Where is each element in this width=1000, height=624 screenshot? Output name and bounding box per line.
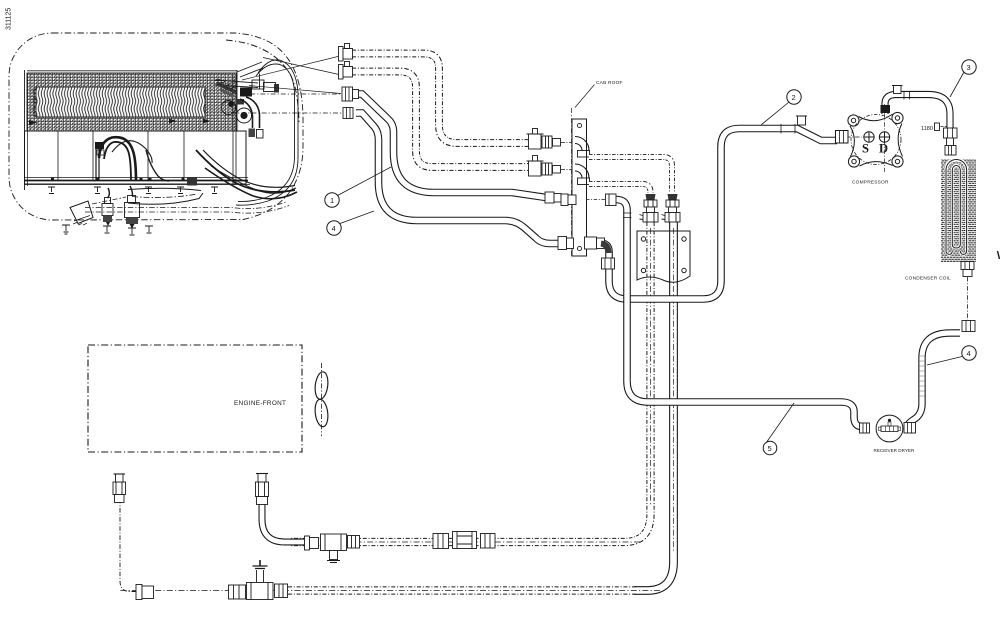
evaporator band top border xyxy=(27,70,237,72)
condenser inlet nuts xyxy=(944,128,958,138)
charge chain A fittings xyxy=(256,474,496,563)
heater hose arch in blower compartment xyxy=(99,137,136,181)
evaporator right end plate xyxy=(233,75,236,184)
funnel leader xyxy=(92,197,126,204)
heater pipes vertical xyxy=(96,144,99,181)
top bracket xyxy=(237,62,263,89)
pair B horizontal dash-dot run xyxy=(288,586,636,594)
fitting nut T1 xyxy=(342,87,353,101)
plate bolts xyxy=(48,187,218,194)
pipe unions hatched xyxy=(217,83,236,93)
row 4 elbow fitting dark xyxy=(601,244,609,254)
expansion valve black body xyxy=(240,88,252,97)
row 3 exit dash-dot xyxy=(586,199,610,201)
cabinet dividers xyxy=(58,131,184,181)
svg-text:RECEIVER DRYER: RECEIVER DRYER xyxy=(874,448,915,453)
svg-text:4: 4 xyxy=(967,349,971,358)
svg-text:D: D xyxy=(879,142,888,156)
valve fitting on hose D1 xyxy=(527,129,573,150)
callout circle 1 xyxy=(325,193,339,207)
flange fitting xyxy=(305,536,310,550)
tee B with valve stem xyxy=(247,583,274,600)
hose 4 crimp ticks xyxy=(919,356,925,396)
engine fan xyxy=(314,371,330,400)
fitting nut T2 xyxy=(343,108,353,119)
cab roof outline (dash-dot rounded rectangle) xyxy=(9,33,303,220)
expansion valve cluster xyxy=(215,62,279,138)
centerline dash-dot of tube fittings xyxy=(240,93,342,95)
union nut on hose 2 vertical xyxy=(602,258,615,269)
receiver dryer xyxy=(876,415,903,442)
svg-text:S: S xyxy=(862,142,869,156)
svg-text:5: 5 xyxy=(768,444,772,453)
svg-text:ENGINE-FRONT: ENGINE-FRONT xyxy=(234,400,286,407)
plate mounting dots xyxy=(51,178,54,181)
hose 2 (evaporator to compressor suction) xyxy=(600,129,837,300)
heater pipes to right xyxy=(215,80,258,88)
fitting left of tee B xyxy=(229,585,246,599)
lower dash-dot run inside cab xyxy=(85,202,287,209)
evaporator coil end loops xyxy=(33,89,36,116)
capillary tubes down xyxy=(246,97,260,128)
nut right of tee B xyxy=(275,584,288,598)
drain hose right xyxy=(146,150,169,181)
leader X lines to fittings xyxy=(242,55,344,80)
callout circle 5 xyxy=(763,441,777,455)
port stack 1 (on pair A) xyxy=(640,194,659,222)
callout circle 2 xyxy=(787,90,801,104)
tube T2 (solid tube to cab roof fourth port) xyxy=(356,113,560,244)
thermostat rings xyxy=(222,101,236,115)
dash-dot link to hose 4 xyxy=(967,277,969,320)
tube T1 (solid tube to cab roof third port) xyxy=(357,94,560,198)
evaporator lower cabinet xyxy=(25,131,247,184)
compressor centerline xyxy=(884,104,886,172)
drain funnel xyxy=(70,201,93,224)
plate elbow R2 xyxy=(575,164,589,179)
cabinet bottom plate xyxy=(24,177,248,179)
vacuum canister 1 xyxy=(102,198,113,227)
cab roof plate centerline xyxy=(571,108,573,258)
suction nut xyxy=(836,131,849,144)
discharge port block xyxy=(881,105,891,113)
charge chain B fittings xyxy=(113,474,288,600)
suction/discharge ports xyxy=(864,132,874,142)
discharge line pair B vertical (solid tube) xyxy=(634,222,674,591)
cab roof inner dome curve xyxy=(226,40,299,122)
svg-text:1180: 1180 xyxy=(921,126,933,132)
svg-text:COMPRESSOR: COMPRESSOR xyxy=(852,180,889,186)
right fitting xyxy=(481,534,496,549)
port stack 2 (on pair B) xyxy=(662,194,681,222)
canister feed hoses xyxy=(108,188,110,198)
nut right of tee xyxy=(348,536,360,549)
callout circle 4 right xyxy=(962,346,976,360)
bulkhead manifold plate xyxy=(637,231,690,282)
hose 2 crimp and service fitting xyxy=(781,124,795,134)
pair A center line xyxy=(280,228,651,542)
blower motor block xyxy=(95,142,104,149)
nut T2 into plate row 4 xyxy=(558,237,567,250)
solid tube from tee to charge valve xyxy=(262,504,310,542)
row 4 port and elbow xyxy=(585,237,597,249)
compressor body xyxy=(836,104,904,172)
fastener arrows on band xyxy=(29,120,38,125)
charge valve upper xyxy=(257,497,268,505)
tee with drain xyxy=(321,534,347,551)
hose 5 (cab roof to receiver dryer) xyxy=(616,200,866,427)
small charge valve xyxy=(115,495,125,503)
thin line to small valve xyxy=(120,502,136,592)
evaporator insulation band (honeycomb hatch) xyxy=(27,73,237,131)
row 3 elbow nut xyxy=(606,194,617,206)
condenser coil xyxy=(941,159,976,262)
hose 4 top fitting xyxy=(962,321,975,332)
bracket step xyxy=(187,177,197,186)
callout circle 3 xyxy=(962,60,976,74)
callout circle 4 left xyxy=(327,221,341,235)
mounting bolts below xyxy=(62,225,153,235)
plate elbow R1 xyxy=(575,137,589,152)
sight glass xyxy=(453,532,477,549)
blower scroll curve xyxy=(112,141,152,163)
page edge tick xyxy=(998,251,1000,259)
hose over cab corner xyxy=(236,60,298,205)
svg-text:3: 3 xyxy=(967,63,971,72)
svg-text:1: 1 xyxy=(330,196,334,205)
cab roof plate xyxy=(572,119,587,256)
hose bundle below cabinet xyxy=(128,188,201,190)
hose 3 service fitting xyxy=(894,86,902,94)
svg-text:CAB ROOF: CAB ROOF xyxy=(596,80,623,86)
evaporator left edge xyxy=(24,70,26,190)
condenser outlet fittings xyxy=(961,262,974,270)
suction line pair A vertical (dash-dot tube) with bottom elbow to charge chain xyxy=(290,222,651,542)
svg-text:2: 2 xyxy=(792,93,796,102)
hose 5 crimp ticks xyxy=(623,213,631,218)
valve fitting on hose D2 xyxy=(527,156,573,177)
hose D1 (dash-dot hose evaporator to cab roof top) xyxy=(352,54,528,144)
hose 5 end nut xyxy=(860,423,870,433)
svg-text:4: 4 xyxy=(332,224,336,233)
mid fitting xyxy=(433,534,449,549)
coupling T1 into plate row 3 xyxy=(545,192,554,203)
fitting F2 xyxy=(339,62,353,80)
hose 4 (condenser to receiver dryer) xyxy=(908,333,961,427)
far left fitting xyxy=(136,585,142,600)
hose D2 (dash-dot hose evaporator to cab roof second) xyxy=(352,72,528,168)
svg-text:311125: 311125 xyxy=(6,8,13,30)
valve block white xyxy=(252,80,264,89)
hose 3 (compressor to condenser) xyxy=(885,95,950,129)
hose bundle to right side xyxy=(196,150,295,192)
dash-dot link R2 to port stack 1 xyxy=(589,184,651,193)
hose 4 end nut xyxy=(904,423,916,434)
fittings on evaporator hoses: F1 xyxy=(339,44,353,62)
pair B center line xyxy=(120,228,674,591)
vacuum canister 2 xyxy=(125,196,140,229)
dash-dot link R1 to port stack 2 xyxy=(589,157,672,193)
evaporator fin core (wavy fins) xyxy=(36,87,205,117)
ENGINE-FRONT box xyxy=(88,345,302,452)
svg-text:CONDENSER COIL: CONDENSER COIL xyxy=(905,276,951,282)
